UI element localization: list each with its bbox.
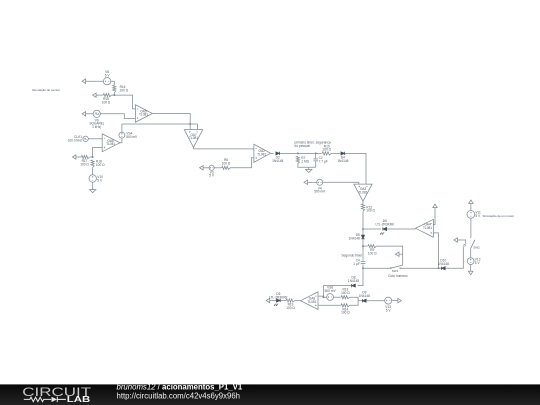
wire node to C2 [298, 152, 316, 154]
wire R12 to timer2 node [362, 211, 364, 229]
svg-text:LAB: LAB [67, 394, 91, 404]
wire R10 to D4 [331, 152, 340, 154]
resistor R12 (vertical) [361, 204, 364, 211]
wire D4 to OA3 right input [345, 153, 366, 184]
wire LED to flag [271, 300, 276, 302]
resistor R14 (horizontal) [341, 304, 350, 307]
wire OA8 output to R19 [295, 300, 301, 302]
svg-text:100 Ω: 100 Ω [366, 209, 375, 213]
wire net down to VS4 [121, 124, 123, 132]
svg-text:7.7 µF: 7.7 µF [319, 160, 328, 164]
net flag F (left of V4) [308, 181, 309, 183]
ground [92, 187, 94, 189]
wire flag to R17 [77, 156, 81, 158]
resistor R18 (vertical) [91, 160, 94, 167]
svg-text:TL081: TL081 [106, 142, 115, 146]
svg-text:TL081: TL081 [189, 136, 198, 140]
junction on summing net [189, 123, 191, 125]
voltage source V11 [467, 211, 475, 219]
wire C2 to bottom rail [315, 161, 317, 167]
net flag H (power above OA4) [434, 208, 436, 209]
net flag I (left of SW2) [457, 239, 458, 241]
resistor R19 (horizontal) [286, 299, 295, 302]
wire V9 to OA5 non-inverting input [100, 114, 135, 119]
svg-text:100 Ω: 100 Ω [102, 101, 111, 105]
wire R7 to bottom rail [298, 164, 316, 168]
svg-text:Simulação do sensor: Simulação do sensor [32, 88, 60, 92]
svg-text:100 Ω: 100 Ω [322, 148, 331, 152]
svg-text:100.0 kHz: 100.0 kHz [68, 138, 83, 142]
wire R18 to V10 [92, 167, 94, 174]
wire join to D9 [358, 300, 362, 302]
diode D4 [341, 152, 345, 155]
wire SW1 throw to D10 node [400, 267, 439, 269]
wire OA7 output to OA2 inverting input [194, 147, 254, 149]
wire flag to R15 [98, 94, 104, 96]
LED D5b [276, 299, 280, 302]
resistor R17 (horizontal) [81, 155, 89, 158]
svg-text:1 kHz): 1 kHz) [92, 125, 101, 129]
svg-text:TL081: TL081 [307, 300, 316, 304]
wire node to OA5 inverting input [114, 95, 135, 109]
wire flag to V9 [87, 113, 93, 115]
resistor R10 (horizontal) [322, 152, 331, 155]
wire D8 to OA8 inverting rail [324, 286, 352, 298]
svg-text:100 Ω: 100 Ω [286, 306, 295, 310]
wire flag to V3 [205, 167, 210, 169]
op-amp OA2 [254, 144, 271, 162]
svg-text:http://circuitlab.com/c42v4s6y: http://circuitlab.com/c42v4s6y9x96h [117, 392, 241, 401]
wire OA2 output to D2 [271, 152, 274, 154]
svg-text:1N4148: 1N4148 [359, 294, 370, 298]
svg-text:5 V: 5 V [209, 174, 215, 178]
svg-text:Ciclo humano: Ciclo humano [388, 274, 408, 278]
voltage source VS4 (series with OA6 output) [119, 132, 125, 138]
wire flag to SW2 contact [459, 240, 466, 244]
resistor R16 (vertical) [113, 85, 116, 92]
svg-text:TL081: TL081 [423, 226, 432, 230]
diode D9 [362, 299, 366, 302]
junction OA8 inverting [323, 296, 325, 298]
resistor R9 (horizontal) [368, 245, 377, 248]
svg-text:100 Ω: 100 Ω [96, 163, 105, 167]
net flag A (left of V8) [86, 80, 87, 82]
svg-text:100 Ω: 100 Ω [80, 162, 89, 166]
net flag D (left of R17) [76, 156, 77, 158]
wire R15 to node [112, 94, 115, 96]
svg-text:500 mV: 500 mV [126, 135, 138, 139]
svg-text:Segundo timer: Segundo timer [342, 254, 364, 258]
wire D2 to timer node [280, 152, 298, 154]
capacitor C2 [313, 158, 318, 160]
wire OA5 output to OA7 input [152, 114, 190, 130]
svg-text:brunoms12 / acionamentos_P1_V1: brunoms12 / acionamentos_P1_V1 [117, 382, 243, 391]
wire V13 to flag [392, 300, 397, 302]
net flag L (right) [397, 300, 398, 302]
wire node to D5 [362, 229, 364, 235]
op-amp OA8 (pointing left) [301, 292, 318, 310]
ground timer1 [308, 167, 310, 169]
svg-text:1N4148: 1N4148 [438, 262, 449, 266]
svg-text:1 µF: 1 µF [353, 262, 359, 266]
junction LED branch [362, 228, 364, 230]
svg-text:100 Ω: 100 Ω [222, 162, 231, 166]
voltage source V3 [209, 165, 214, 170]
op-amp OA3 (pointing down) [354, 184, 372, 201]
wire R6 to OA2 non-inverting input [230, 158, 254, 168]
svg-text:1N4148: 1N4148 [349, 237, 360, 241]
svg-text:TL081: TL081 [358, 191, 367, 195]
op-amp OA7 (pointing down) [184, 130, 203, 148]
wire V4 to OA3 left input [323, 182, 359, 184]
wire flag to V4 [309, 181, 317, 183]
wire node to R10 [316, 152, 322, 154]
wire flag to arm wire [400, 253, 402, 255]
svg-text:TL081: TL081 [139, 113, 148, 117]
wire VS6 to R13 [334, 296, 341, 298]
resistor R15 (horizontal) [103, 94, 111, 97]
wire D9 to V13 [366, 300, 384, 302]
svg-text:1N4148: 1N4148 [272, 159, 283, 163]
resistor R13 (horizontal) [341, 296, 350, 299]
net flag B (left of R15) [96, 94, 97, 96]
svg-text:LTL-2R3KRK: LTL-2R3KRK [375, 222, 395, 226]
net flag M (bottom-left) [270, 300, 271, 302]
LED D6 [383, 227, 387, 230]
wire V8 to R16 [111, 81, 115, 85]
wire R19 to LED D5b [281, 300, 287, 302]
wire CLK1 to OA6 inverting input [88, 138, 102, 140]
net flag C (left of V9) [86, 113, 87, 115]
wire node to R9 [363, 245, 367, 247]
wire R13 to join [350, 297, 358, 301]
wire R16 to node [113, 93, 115, 96]
svg-text:SW2: SW2 [473, 246, 480, 250]
svg-text:1 MΩ: 1 MΩ [301, 159, 309, 163]
wire into C2 [315, 153, 317, 158]
svg-text:500 mV: 500 mV [325, 289, 337, 293]
wire V8 left [87, 80, 103, 82]
wire D5 to node [362, 239, 364, 246]
wire node to LED D6 [363, 228, 381, 230]
wire R9 to switch arm [377, 246, 403, 265]
svg-text:100 Ω: 100 Ω [341, 291, 350, 295]
op-amp OA5 [135, 105, 152, 123]
svg-text:5 V: 5 V [105, 74, 111, 78]
switch SW2 [464, 244, 466, 246]
op-amp OA4 (pointing left) [416, 219, 434, 237]
square-wave source V9 [93, 110, 100, 117]
voltage source VS6 [327, 294, 334, 301]
svg-text:100 Ω: 100 Ω [368, 252, 377, 256]
voltage source V4 [317, 179, 323, 185]
net flag J (power above V11) [470, 204, 472, 205]
net flag G (at SW1 arm) [399, 253, 400, 255]
wire R17 to node [90, 156, 93, 158]
wire C4 to switch rail [362, 264, 364, 268]
clock source CLK1 [83, 136, 88, 141]
svg-text:5 V: 5 V [475, 214, 481, 218]
net flag E (left of V3) [203, 167, 204, 169]
resistor R6 (horizontal) [222, 166, 230, 169]
svg-text:5 V: 5 V [386, 308, 392, 312]
wire OA8 non-inverting to R14 [318, 304, 341, 306]
junction timer1 top [297, 152, 299, 154]
junction switch rail [362, 267, 364, 269]
svg-text:do pessoal: do pessoal [295, 144, 311, 148]
wire SW2 to V12 [470, 248, 472, 257]
voltage source V13 [385, 297, 392, 304]
svg-text:5 V: 5 V [475, 261, 481, 265]
wire R14 to join [350, 301, 358, 306]
wire LED to OA4 output [387, 228, 416, 230]
wire to VS6 [324, 296, 327, 298]
junction node divider [113, 94, 115, 96]
wire node to C4 [362, 246, 364, 260]
junction R9 branch [362, 245, 364, 247]
voltage source V10 [89, 175, 96, 182]
svg-text:TL081: TL081 [257, 153, 266, 157]
svg-text:LTL-2R3KRK: LTL-2R3KRK [269, 296, 289, 300]
op-amp OA6 [102, 134, 120, 152]
wire flag to OA4 input [433, 209, 435, 225]
net flag K (down) [470, 270, 472, 271]
wire flag to V11 [470, 205, 472, 211]
junction divider 2 [92, 156, 94, 158]
wire OA6 non-inverting input to divider [93, 147, 103, 157]
wire OA4 input down [433, 233, 438, 268]
resistor R7 (vertical) [296, 156, 299, 163]
svg-text:Simulação de um motor: Simulação de um motor [483, 214, 515, 218]
wire VS4 to OA6 output [120, 138, 122, 143]
wire D10 to SW2 contact [445, 246, 463, 268]
wire to SW1 contact [363, 267, 390, 269]
svg-text:1N4148: 1N4148 [348, 279, 359, 283]
wire V10 to ground [92, 182, 94, 187]
diode D2 [276, 152, 280, 155]
wire down to D8 [358, 268, 363, 285]
voltage source V12 [467, 258, 474, 265]
svg-text:500 mV: 500 mV [314, 190, 326, 194]
svg-text:100 Ω: 100 Ω [341, 311, 350, 315]
svg-text:100 Ω: 100 Ω [120, 88, 129, 92]
wire OA8 inverting input [318, 296, 324, 297]
junction D10 [438, 267, 440, 269]
wire to D10 [439, 267, 442, 269]
wire summing net to OA7 right input [122, 124, 197, 130]
diode D8 [352, 284, 356, 287]
svg-text:1N4148: 1N4148 [337, 159, 348, 163]
junction C2 top [315, 152, 317, 154]
svg-text:5 V: 5 V [97, 178, 103, 182]
voltage source V8 [103, 78, 110, 85]
logo resistor-diode glyph [24, 397, 66, 403]
svg-text:SW1: SW1 [392, 269, 399, 273]
wire V3 to R6 [214, 167, 222, 169]
wire OA3 output down [362, 201, 364, 204]
wire V12 to flag [470, 265, 472, 270]
switch SW1 [390, 267, 392, 269]
wire V11 to SW2 [470, 218, 472, 237]
